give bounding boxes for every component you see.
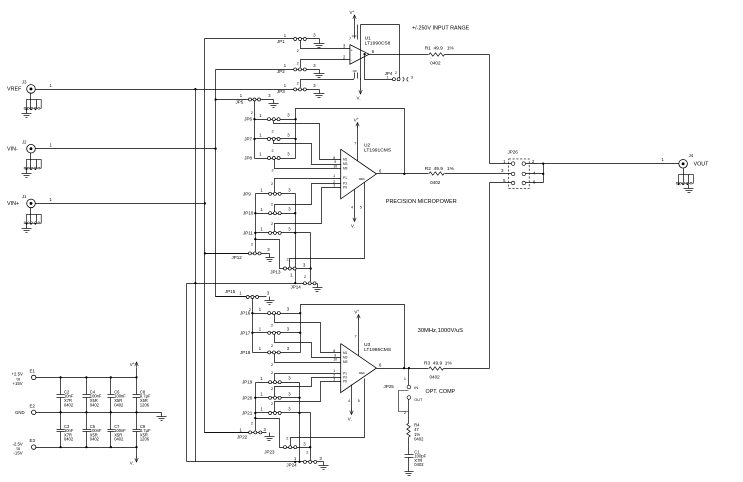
svg-text:2: 2 xyxy=(306,451,308,455)
svg-text:JP25: JP25 xyxy=(384,384,395,389)
wire JP17 pin2 to U3 M3 xyxy=(271,335,341,358)
node JP10 pin1 xyxy=(254,212,256,214)
ground at power rail xyxy=(157,413,167,421)
svg-text:JP21: JP21 xyxy=(242,411,253,416)
svg-text:R3 49.9 1%: R3 49.9 1% xyxy=(424,360,452,366)
power V+ at U2 xyxy=(354,117,359,160)
svg-text:E2: E2 xyxy=(30,403,36,408)
svg-text:2: 2 xyxy=(271,371,273,375)
svg-text:0402: 0402 xyxy=(430,180,441,185)
ground below C1 xyxy=(405,458,414,476)
wire JP21 pin2 to U3 P9 xyxy=(271,382,341,412)
node JP20 pin1 xyxy=(254,397,256,399)
svg-text:5: 5 xyxy=(360,205,362,209)
node JP16 pin1 xyxy=(251,312,253,314)
svg-text:30MHz,1000V/uS: 30MHz,1000V/uS xyxy=(418,328,464,334)
jumper JP6 xyxy=(244,113,295,122)
svg-text:OUT: OUT xyxy=(414,398,423,402)
wire JP12 pin1 branch xyxy=(205,253,249,255)
svg-text:2: 2 xyxy=(297,82,299,86)
wire JP9-JP11 pin3 bus xyxy=(295,194,297,284)
svg-text:JP2: JP2 xyxy=(277,69,285,74)
node JP13 pin3 xyxy=(310,267,312,269)
wire U2 REF pin5 to JP13 xyxy=(290,183,365,267)
svg-text:1: 1 xyxy=(333,174,335,178)
svg-text:2: 2 xyxy=(304,275,306,279)
wire JP19-JP21 pin3 bus xyxy=(299,383,301,462)
wire pin1 bus to JP23 pin1 xyxy=(256,419,284,448)
svg-text:JP15: JP15 xyxy=(225,289,236,294)
connector J3 VREF xyxy=(7,80,41,118)
wire JP6 pin2 to U2 M1 xyxy=(272,121,341,160)
svg-text:0402: 0402 xyxy=(430,374,441,379)
wire VREF input (J3 pin1 to JP3) xyxy=(36,83,294,90)
node JP17 pin1 xyxy=(251,332,253,334)
node V+ rail C4 xyxy=(85,376,87,378)
node JP17 pin3 xyxy=(299,332,301,334)
svg-text:P9: P9 xyxy=(343,380,347,384)
power V- at U1 xyxy=(357,79,363,102)
ground at JP24 pin3 xyxy=(319,462,329,470)
wire U3 output pin6 xyxy=(377,368,429,370)
wire JP25 pin2 to R4 xyxy=(408,400,410,424)
wire JP21 pin3 to JP24 pin2 xyxy=(306,413,310,461)
node U1 output feedback junction xyxy=(363,53,365,55)
svg-text:0402: 0402 xyxy=(414,436,424,441)
svg-text:2: 2 xyxy=(271,344,273,348)
svg-text:LT1990CS8: LT1990CS8 xyxy=(365,40,391,46)
jumper JP22 xyxy=(205,421,267,439)
svg-text:P1: P1 xyxy=(343,176,347,180)
svg-text:2: 2 xyxy=(251,421,253,425)
svg-text:2: 2 xyxy=(272,169,274,173)
op-amp U3 LT1995CMS xyxy=(333,335,392,403)
wire VREF vertical bus xyxy=(195,90,197,462)
svg-text:E3: E3 xyxy=(30,438,36,443)
wire JP16 pin2 to U3 M1 xyxy=(271,315,341,353)
svg-text:2: 2 xyxy=(271,222,273,226)
svg-text:0402: 0402 xyxy=(64,402,74,407)
svg-text:1: 1 xyxy=(387,75,389,79)
svg-text:2: 2 xyxy=(286,437,288,441)
ground at JP14 pin3 xyxy=(313,284,323,292)
svg-text:REF: REF xyxy=(359,177,365,181)
svg-text:4: 4 xyxy=(351,205,353,209)
node GND rail C8 xyxy=(135,411,137,413)
ground at JP5 pin3 xyxy=(269,100,279,108)
wire VREF branch to JP14/JP24 (left loop) xyxy=(187,284,304,462)
wire U2 feedback bus (JP6-JP8 pin3) xyxy=(296,109,405,174)
svg-text:JP26: JP26 xyxy=(508,150,519,155)
wire U2 output pin6 xyxy=(377,173,429,175)
text PRECISION MICROPOWER xyxy=(386,199,457,205)
svg-text:-15V: -15V xyxy=(14,451,23,456)
wire U1 output pin6 xyxy=(369,54,429,56)
op-amp U1 LT1990CS8 xyxy=(343,25,400,80)
node V- rail C3 xyxy=(59,446,61,448)
resistor R3 49.9 1% 0402 xyxy=(424,360,452,379)
svg-text:100: 100 xyxy=(352,34,357,38)
svg-text:2: 2 xyxy=(297,61,299,65)
wire V+ rail xyxy=(36,368,137,378)
jumper JP13 xyxy=(270,257,310,274)
wire JP2 pin2 to U1 pin2 xyxy=(297,60,350,68)
wire JP5 pin2 to JP6-JP8 pin1 bus xyxy=(251,101,255,159)
wire R3 to JP26 pin5 xyxy=(444,183,512,369)
wire JP11 pin2 to U2 P9 xyxy=(271,188,341,232)
svg-text:10: 10 xyxy=(333,165,337,169)
node GND rail C6 xyxy=(110,411,112,413)
wire V- rail xyxy=(36,448,137,458)
jumper JP15 xyxy=(216,289,270,299)
node JP9-11 pin3 bus joins JP14 wire xyxy=(294,282,296,284)
svg-text:2: 2 xyxy=(271,182,273,186)
node JP16 pin3 xyxy=(299,312,301,314)
ground at JP1 pin3 xyxy=(314,39,325,48)
wire JP26 pins 2/4/6 tie xyxy=(526,164,544,183)
wire R1 to JP26 pin1 xyxy=(445,55,512,164)
resistor R2 49.9 1% 0402 xyxy=(425,166,455,185)
svg-text:+: + xyxy=(352,10,354,14)
jumper JP1 xyxy=(205,33,320,44)
connector J1 VIN+ xyxy=(7,194,41,233)
svg-text:R1 49.9 1%: R1 49.9 1% xyxy=(425,45,455,51)
capacitor C4 100nF X5R 0402 xyxy=(83,378,102,413)
jumper JP14 xyxy=(290,273,317,290)
svg-text:J3: J3 xyxy=(22,80,27,85)
text +/-250V INPUT RANGE xyxy=(412,25,470,31)
ground at JP2 pin3 xyxy=(314,70,325,78)
svg-text:JP24: JP24 xyxy=(286,463,297,468)
svg-text:7: 7 xyxy=(349,37,351,41)
power V+ at U3 xyxy=(354,309,360,355)
svg-text:IN: IN xyxy=(414,386,418,390)
svg-text:JP6: JP6 xyxy=(244,117,252,122)
svg-text:2: 2 xyxy=(395,71,397,75)
wire JP7 pin2 to U2 M3 xyxy=(272,141,341,165)
svg-text:JP3: JP3 xyxy=(277,89,285,94)
capacitor C5 100nF X5R 0402 xyxy=(83,413,102,448)
node JP13 pin1 branch xyxy=(254,238,256,240)
wire U3 output to JP25 pin1 xyxy=(408,369,410,386)
wire VIN- vertical bus xyxy=(216,70,248,297)
capacitor C1 100pF X7R 0402 xyxy=(405,449,427,467)
svg-text:P9: P9 xyxy=(343,186,347,190)
wire JP11 pin3 to JP14 pin2 xyxy=(310,233,312,282)
wire R2 to JP26 pin3 xyxy=(445,173,512,175)
svg-text:JP10: JP10 xyxy=(243,211,254,216)
node JP11 pin3 xyxy=(294,232,296,234)
svg-text:LT1995CMS: LT1995CMS xyxy=(364,347,392,353)
svg-text:2: 2 xyxy=(251,111,253,115)
svg-text:M3: M3 xyxy=(343,356,348,360)
node JP6 pin3 xyxy=(294,118,296,120)
power V- at U3 (pin 4) xyxy=(348,385,353,423)
svg-text:JP14: JP14 xyxy=(291,285,302,290)
wire JP10 pin2 to U2 P3 xyxy=(271,184,341,212)
svg-text:JP18: JP18 xyxy=(240,350,251,355)
svg-text:8: 8 xyxy=(333,156,335,160)
svg-text:+/-250V INPUT RANGE: +/-250V INPUT RANGE xyxy=(412,25,470,31)
wire JP9 pin2 to U2 P1 xyxy=(271,179,341,193)
node JP21 pin3 xyxy=(298,412,300,414)
svg-text:REF: REF xyxy=(359,371,365,375)
svg-text:10: 10 xyxy=(333,358,337,362)
svg-text:+: + xyxy=(133,362,135,366)
svg-text:JP19: JP19 xyxy=(242,380,253,385)
svg-text:R2 49.9 1%: R2 49.9 1% xyxy=(425,166,455,172)
node JP10 pin3 xyxy=(294,212,296,214)
node JP20 pin3 xyxy=(298,397,300,399)
svg-text:JP8: JP8 xyxy=(244,156,252,161)
svg-text:0402: 0402 xyxy=(430,61,441,66)
node VIN+ bus junction xyxy=(204,202,206,204)
svg-text:2: 2 xyxy=(271,323,273,327)
svg-text:+: + xyxy=(357,309,359,313)
jumper JP7 xyxy=(244,133,295,142)
node V+ rail C8 xyxy=(135,376,137,378)
svg-text:1206: 1206 xyxy=(140,437,150,442)
svg-text:2: 2 xyxy=(271,387,273,391)
node V- rail C5 xyxy=(85,446,87,448)
svg-text:OPT. COMP: OPT. COMP xyxy=(426,389,456,395)
terminal E2 GND xyxy=(15,403,36,415)
svg-text:JP22: JP22 xyxy=(237,435,248,440)
svg-text:+: + xyxy=(357,117,359,121)
wire pin1 bus to JP13 pin1 xyxy=(256,240,284,269)
jumper JP24 xyxy=(286,456,323,468)
svg-text:2: 2 xyxy=(271,203,273,207)
wire JP19-JP21 pin1 bus to JP22 pin2 xyxy=(255,383,257,431)
svg-text:JP5: JP5 xyxy=(236,99,244,104)
wire VIN+ input (J1 pin1 to bus) xyxy=(36,197,205,203)
node JP23 pin1 branch xyxy=(254,417,256,419)
svg-text:JP12: JP12 xyxy=(232,255,243,260)
wire U3 feedback bus (JP16-JP18 pin3) xyxy=(301,305,405,368)
power V- at U2 (pin 4) xyxy=(351,190,356,230)
wire JP8 pin2 to U2 M9 xyxy=(272,160,341,173)
svg-text:JP13: JP13 xyxy=(270,270,281,275)
ground at JP22 pin3 xyxy=(265,433,275,441)
node JP26 pin2 xyxy=(542,162,544,164)
svg-text:8: 8 xyxy=(333,349,335,353)
node JP19-21 pin3 bus joins JP24 wire xyxy=(294,461,296,463)
svg-text:J1: J1 xyxy=(22,194,27,199)
wire VOUT (JP26 to J4) xyxy=(544,157,679,164)
jumper JP21 xyxy=(242,407,311,416)
connector J4 VOUT xyxy=(676,153,709,192)
jumper JP5 xyxy=(216,93,274,104)
jumper JP12 xyxy=(205,242,271,260)
svg-text:JP16: JP16 xyxy=(240,311,251,316)
jumper JP8 xyxy=(244,152,295,161)
svg-text:VOUT: VOUT xyxy=(694,162,710,168)
node pin3 bus at JP24 wire xyxy=(298,461,300,463)
resistor R1 49.9 1% 0402 xyxy=(425,45,455,65)
ground at JP15 pin3 xyxy=(265,297,275,305)
ground at JP12 pin3 xyxy=(266,254,275,262)
svg-text:0402: 0402 xyxy=(114,402,124,407)
wire JP9-JP11 pin1 bus to JP12 pin2 xyxy=(255,194,257,253)
svg-text:2: 2 xyxy=(272,129,274,133)
svg-text:2: 2 xyxy=(271,402,273,406)
svg-text:JP11: JP11 xyxy=(243,230,253,235)
power V+ at U1 xyxy=(350,10,357,25)
node JP7 pin1 xyxy=(253,138,255,140)
wire JP20 pin2 to U3 P3 xyxy=(271,378,341,397)
svg-text:E1: E1 xyxy=(30,368,36,373)
svg-text:3: 3 xyxy=(333,377,335,381)
svg-text:VIN+: VIN+ xyxy=(7,201,19,207)
jumper JP11 xyxy=(243,226,311,235)
svg-text:M1: M1 xyxy=(343,351,348,355)
svg-text:JP17: JP17 xyxy=(240,330,251,335)
jumper JP10 xyxy=(243,207,296,216)
text OPT. COMP xyxy=(426,389,456,395)
svg-text:JP1: JP1 xyxy=(277,39,285,44)
svg-text:1206: 1206 xyxy=(140,402,150,407)
wire R4 to C1 xyxy=(408,438,410,455)
jumper JP16 xyxy=(240,307,301,316)
wire JP18 pin2 to U3 M9 xyxy=(271,354,341,368)
ground at JP3 pin3 xyxy=(314,90,325,98)
wire JP15 pin2 to JP16-JP18 pin1 bus xyxy=(249,299,253,353)
node VREF bus to JP14 branch xyxy=(194,282,196,284)
wire GND rail xyxy=(36,412,162,414)
resistor R4 47 1% 0402 xyxy=(407,423,424,442)
jumper JP23 xyxy=(264,437,310,455)
wire VIN+ vertical bus xyxy=(205,39,249,433)
svg-text:J2: J2 xyxy=(22,139,27,144)
svg-text:JP20: JP20 xyxy=(242,395,253,400)
svg-text:2: 2 xyxy=(272,149,274,153)
svg-text:4: 4 xyxy=(348,399,350,403)
node VIN- bus junction xyxy=(214,148,216,150)
op-amp U2 LT1991CMS xyxy=(333,142,392,210)
svg-text:M9: M9 xyxy=(343,360,348,364)
svg-text:0402: 0402 xyxy=(114,437,124,442)
svg-text:J4: J4 xyxy=(689,153,694,158)
svg-text:7: 7 xyxy=(355,335,357,339)
svg-text:100: 100 xyxy=(352,69,357,73)
power V- arrow (rail) xyxy=(130,457,138,466)
node JP23 pin3 xyxy=(309,446,311,448)
node VREF bus junction xyxy=(194,88,196,90)
node V- rail C7 xyxy=(110,446,112,448)
jumper JP2 xyxy=(216,63,320,74)
jumper JP3 xyxy=(277,83,320,94)
svg-text:+15V: +15V xyxy=(13,381,23,386)
capacitor C2 10nF X7R 0402 xyxy=(57,378,74,413)
node JP6 pin1 xyxy=(253,118,255,120)
svg-text:2: 2 xyxy=(287,257,289,261)
svg-text:0402: 0402 xyxy=(64,437,74,442)
jumper JP18 xyxy=(240,346,301,355)
wire JP1 pin2 to U1 pin3 xyxy=(297,41,350,54)
svg-text:VIN-: VIN- xyxy=(7,146,18,152)
jumper JP9 xyxy=(243,187,296,196)
connector J2 VIN- xyxy=(7,139,41,177)
node U3 output feedback junction xyxy=(403,367,405,369)
svg-text:LT1991CMS: LT1991CMS xyxy=(364,148,392,154)
wire VIN- input (J2 pin1 to bus) xyxy=(36,143,216,149)
capacitor C8 4.7µF X5R 1206 xyxy=(133,378,151,413)
wire U1 feedback to JP4 xyxy=(365,55,393,80)
svg-text:GND: GND xyxy=(15,410,25,415)
svg-text:JP9: JP9 xyxy=(243,191,251,196)
wire JP3 pin2 to U1 REF pin xyxy=(297,79,354,88)
capacitor C6 100nF X5R 0402 xyxy=(108,378,127,413)
svg-text:5: 5 xyxy=(358,399,360,403)
svg-text:7: 7 xyxy=(354,142,356,146)
node V+ rail C2 xyxy=(59,376,61,378)
svg-text:PRECISION MICROPOWER: PRECISION MICROPOWER xyxy=(386,199,457,205)
svg-text:M3: M3 xyxy=(343,162,348,166)
power V+ arrow (rail) xyxy=(130,362,138,368)
svg-text:9: 9 xyxy=(334,353,336,357)
node U3 output to JP25 xyxy=(408,367,410,369)
node VIN- bus to JP5 xyxy=(214,98,216,100)
jumper JP4 with shunt xyxy=(385,71,414,82)
svg-text:+: + xyxy=(351,48,353,52)
node JP11 pin1 xyxy=(254,232,256,234)
svg-text:M1: M1 xyxy=(343,158,348,162)
svg-text:2: 2 xyxy=(251,242,253,246)
node GND rail C4 xyxy=(85,411,87,413)
svg-text:M9: M9 xyxy=(343,167,348,171)
text 30MHz,1000V/uS xyxy=(418,328,464,334)
terminal E1 +2.5V to +15V xyxy=(12,368,36,386)
jumper JP25 xyxy=(384,377,423,415)
node JP21 pin1 xyxy=(254,412,256,414)
svg-text:JP7: JP7 xyxy=(244,137,252,142)
capacitor C9 4.7µF X5R 1206 xyxy=(133,413,151,448)
capacitor C3 10nF X7R 0402 xyxy=(57,413,74,448)
svg-text:JP23: JP23 xyxy=(264,449,275,454)
header JP26 xyxy=(501,150,536,189)
svg-text:0402: 0402 xyxy=(90,437,100,442)
svg-text:2: 2 xyxy=(271,363,273,367)
svg-text:3: 3 xyxy=(333,184,335,188)
jumper JP17 xyxy=(240,326,301,335)
node JP7 pin3 xyxy=(294,138,296,140)
svg-text:VREF: VREF xyxy=(7,87,22,93)
node VIN+ bus to JP12 xyxy=(204,252,206,254)
node U2 output feedback junction xyxy=(403,173,405,175)
jumper JP20 xyxy=(242,391,300,400)
svg-text:0402: 0402 xyxy=(90,402,100,407)
node GND rail C2 xyxy=(59,411,61,413)
node V- rail C9 xyxy=(135,446,137,448)
terminal E3 -2.5V to -15V xyxy=(13,438,36,456)
svg-text:0402: 0402 xyxy=(414,462,424,467)
svg-text:1: 1 xyxy=(404,377,406,381)
node V+ rail C6 xyxy=(110,376,112,378)
capacitor C7 100nF X5R 0402 xyxy=(108,413,127,448)
node JP26 pin4 xyxy=(542,173,544,175)
wire U3 REF pin5 to JP23 xyxy=(291,379,365,446)
svg-text:9: 9 xyxy=(334,160,336,164)
jumper JP19 xyxy=(242,376,300,385)
wire JP19 pin2 to U3 P1 xyxy=(271,371,341,380)
svg-text:2: 2 xyxy=(297,49,299,53)
